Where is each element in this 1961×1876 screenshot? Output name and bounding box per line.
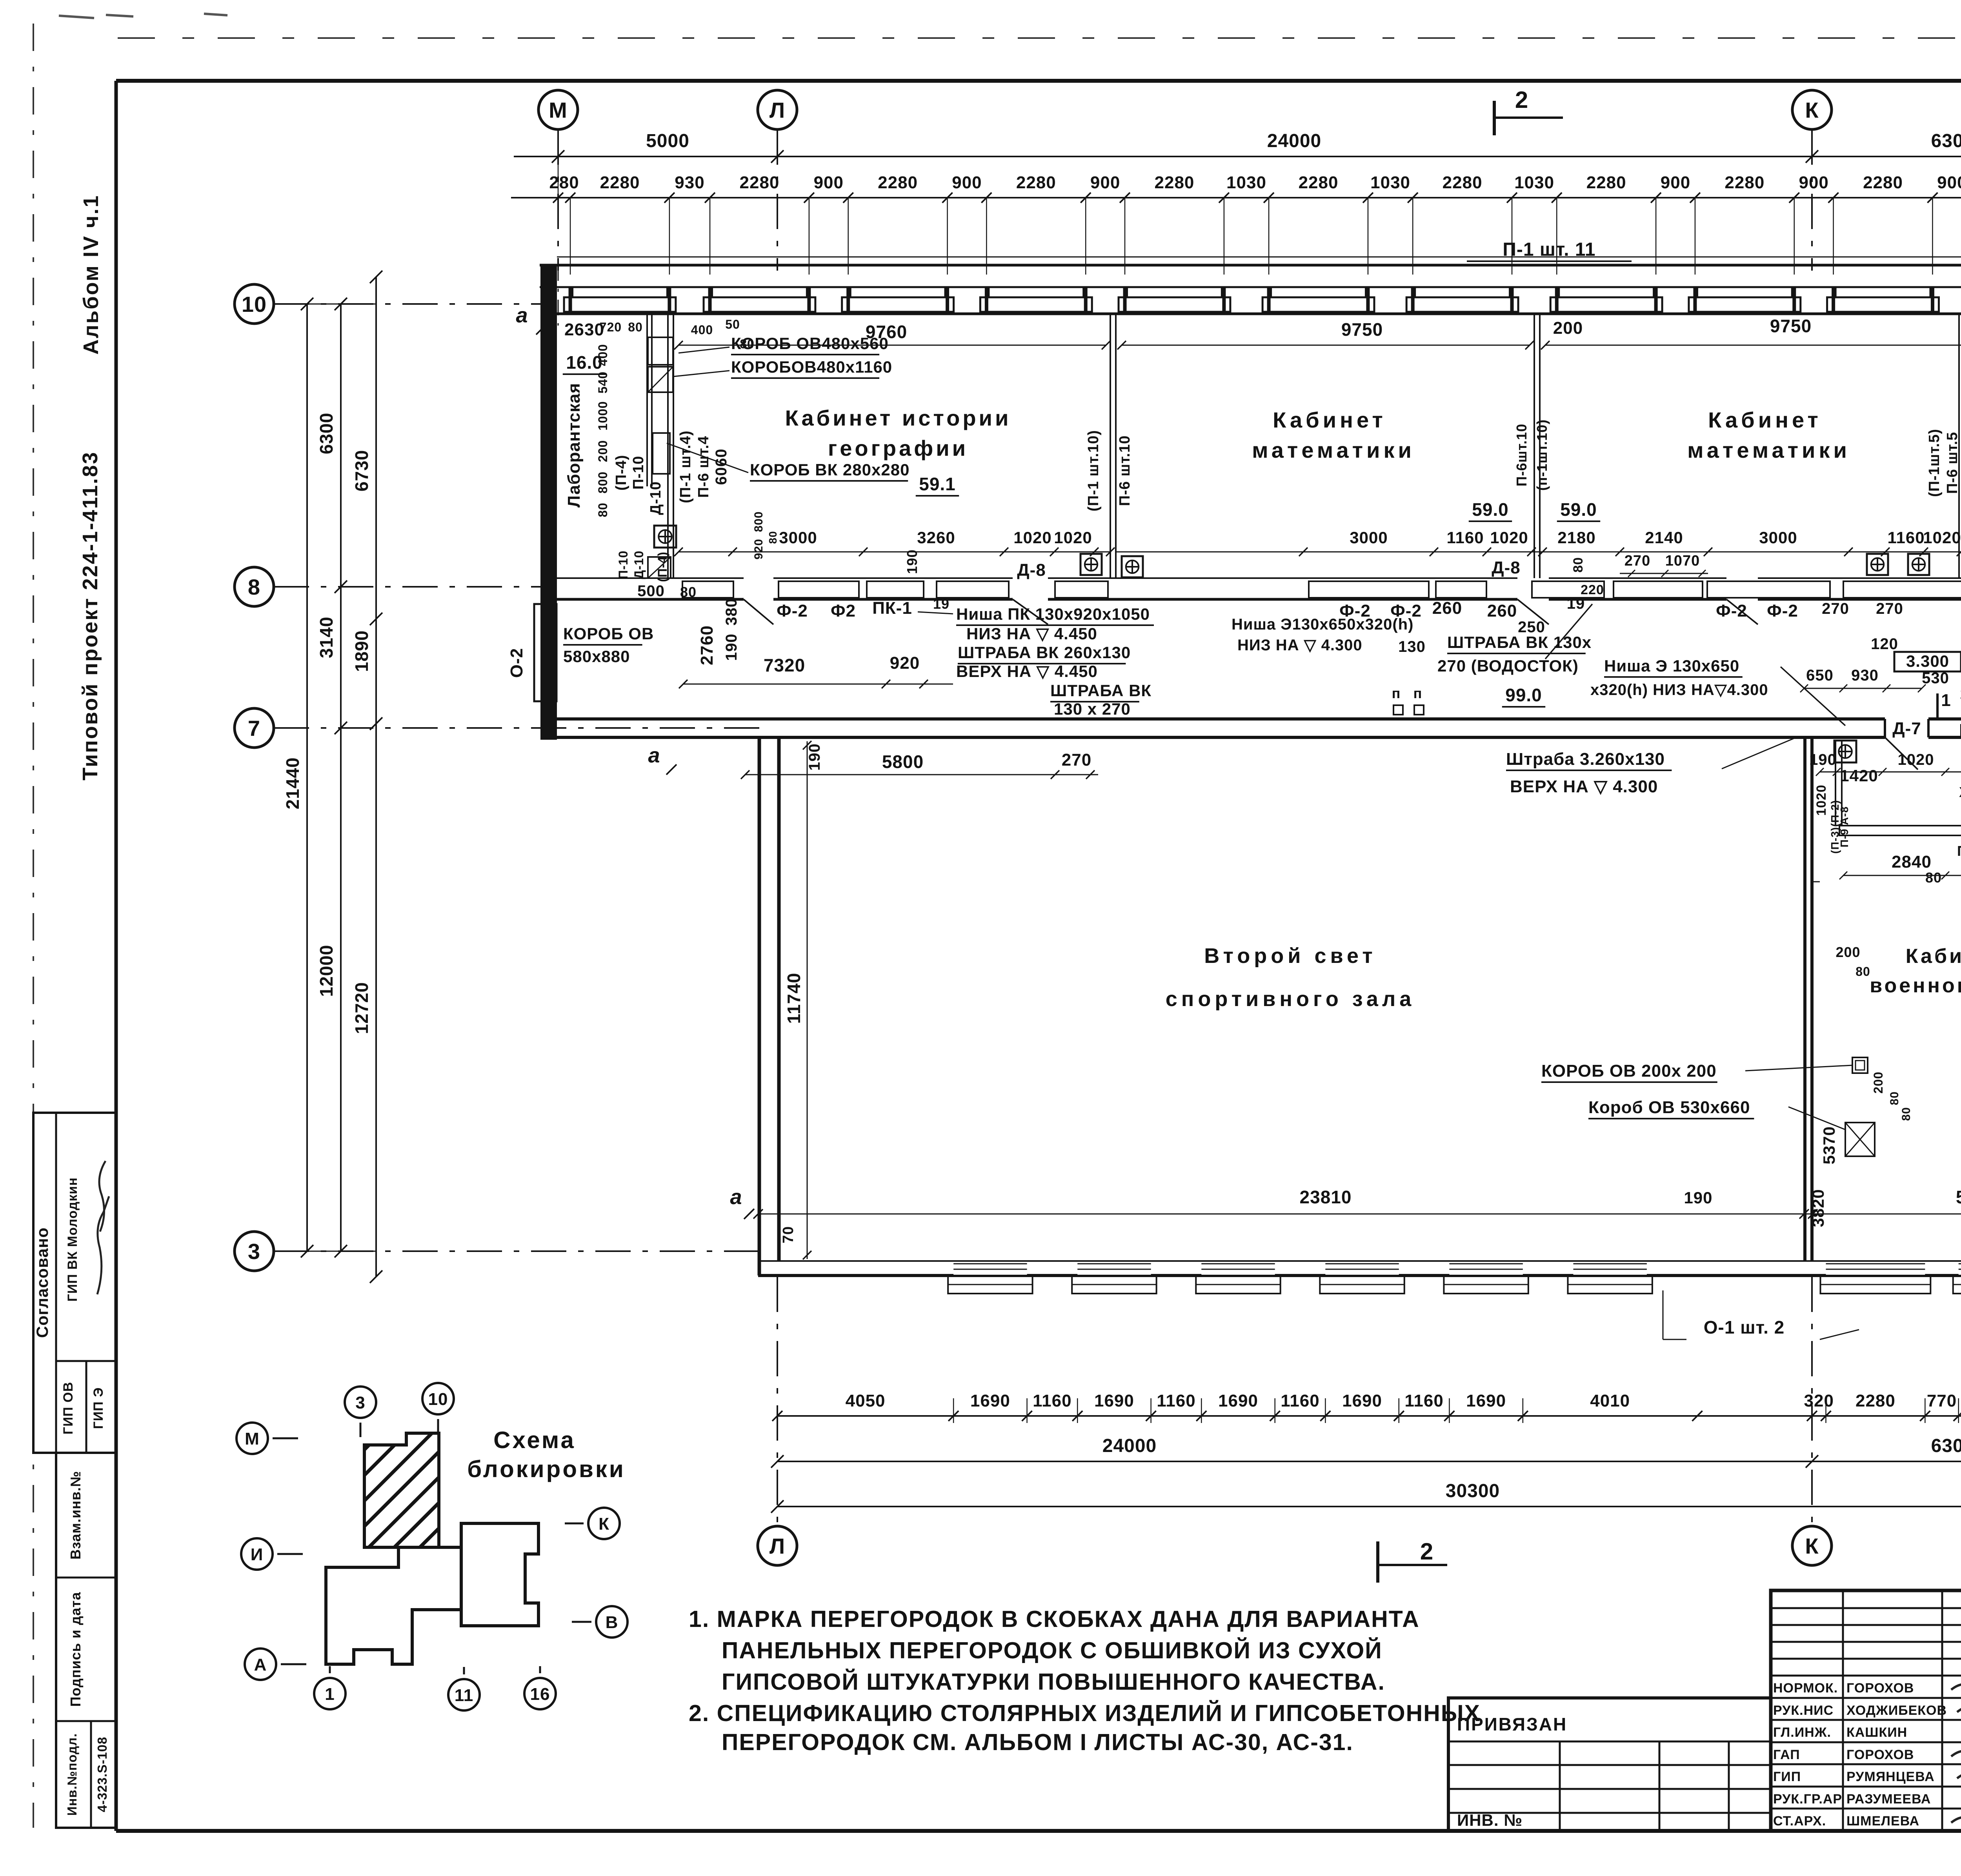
svg-text:7320: 7320 xyxy=(764,655,805,675)
svg-text:ХОДЖИБЕКОВ: ХОДЖИБЕКОВ xyxy=(1846,1703,1947,1718)
svg-text:3140: 3140 xyxy=(316,617,337,658)
svg-text:ГОРОХОВ: ГОРОХОВ xyxy=(1846,1681,1914,1696)
svg-text:50: 50 xyxy=(725,317,740,331)
svg-text:220: 220 xyxy=(1581,582,1604,597)
svg-text:30300: 30300 xyxy=(1446,1481,1500,1501)
svg-text:6060: 6060 xyxy=(713,449,730,485)
svg-text:80: 80 xyxy=(740,337,755,351)
svg-text:1420: 1420 xyxy=(1840,766,1878,785)
svg-text:О-2: О-2 xyxy=(507,648,526,678)
svg-text:1160: 1160 xyxy=(1404,1391,1443,1410)
svg-text:ГАП: ГАП xyxy=(1773,1747,1800,1762)
svg-text:1890: 1890 xyxy=(351,630,372,672)
svg-text:Кабинет: Кабинет xyxy=(1708,408,1822,432)
svg-text:(П-1шт.5): (П-1шт.5) xyxy=(1926,429,1943,497)
svg-text:16: 16 xyxy=(530,1685,550,1704)
svg-text:географии: географии xyxy=(828,436,968,460)
svg-text:П-10: П-10 xyxy=(616,550,630,579)
svg-text:9760: 9760 xyxy=(866,322,907,342)
svg-text:х320(h) НИЗ НА▽4.300: х320(h) НИЗ НА▽4.300 xyxy=(1590,681,1768,699)
svg-text:1160: 1160 xyxy=(1157,1391,1195,1410)
svg-text:2630: 2630 xyxy=(564,320,604,339)
svg-text:1020: 1020 xyxy=(1013,528,1051,547)
svg-text:270: 270 xyxy=(1624,553,1650,569)
svg-text:2. СПЕЦИФИКАЦИЮ СТОЛЯРНЫХ ИЗ: 2. СПЕЦИФИКАЦИЮ СТОЛЯРНЫХ ИЗДЕЛИЙ И ГИПС… xyxy=(689,1700,1481,1726)
svg-text:1020: 1020 xyxy=(1814,784,1829,816)
svg-text:12000: 12000 xyxy=(316,945,337,997)
svg-text:580х880: 580х880 xyxy=(563,647,630,666)
svg-text:200: 200 xyxy=(596,440,610,462)
svg-text:800: 800 xyxy=(596,471,610,493)
svg-text:1000: 1000 xyxy=(596,401,610,430)
svg-text:2280: 2280 xyxy=(1016,173,1056,192)
svg-text:59.0: 59.0 xyxy=(1472,499,1509,520)
svg-text:НИЗ НА ▽ 4.300: НИЗ НА ▽ 4.300 xyxy=(1237,637,1363,654)
svg-text:П-1 шт. 11: П-1 шт. 11 xyxy=(1503,239,1595,260)
svg-text:200: 200 xyxy=(1553,318,1583,338)
svg-text:900: 900 xyxy=(1937,173,1961,192)
svg-text:99.0: 99.0 xyxy=(1505,685,1542,705)
svg-text:Инв.№подл.: Инв.№подл. xyxy=(65,1733,79,1816)
svg-text:5920: 5920 xyxy=(1956,1187,1961,1207)
svg-text:1020: 1020 xyxy=(1898,751,1934,768)
svg-text:770: 770 xyxy=(1927,1391,1957,1410)
svg-text:3000: 3000 xyxy=(1759,528,1797,547)
svg-text:270: 270 xyxy=(1062,750,1091,770)
svg-text:П-6 шт.5: П-6 шт.5 xyxy=(1944,432,1961,494)
svg-text:КОРОБОВ480х1160: КОРОБОВ480х1160 xyxy=(731,358,892,376)
svg-text:930: 930 xyxy=(1851,667,1879,684)
svg-text:Взам.инв.№: Взам.инв.№ xyxy=(67,1471,84,1559)
svg-text:2: 2 xyxy=(1515,87,1528,113)
svg-text:2280: 2280 xyxy=(1586,173,1626,192)
svg-text:900: 900 xyxy=(1661,173,1690,192)
svg-text:А: А xyxy=(254,1655,267,1674)
svg-text:9750: 9750 xyxy=(1341,319,1383,340)
svg-text:ПАНЕЛЬНЫХ ПЕРЕГОРОДОК С ОБШИ: ПАНЕЛЬНЫХ ПЕРЕГОРОДОК С ОБШИВКОЙ ИЗ СУХО… xyxy=(722,1637,1383,1663)
svg-text:П-6 шт.4: П-6 шт.4 xyxy=(695,436,712,498)
svg-text:ИНВ. №: ИНВ. № xyxy=(1457,1811,1523,1829)
svg-text:80: 80 xyxy=(767,531,779,544)
svg-text:2140: 2140 xyxy=(1645,528,1683,547)
svg-text:280: 280 xyxy=(549,173,579,192)
svg-text:1690: 1690 xyxy=(970,1391,1010,1410)
svg-text:Ниша Э130х650х320(h): Ниша Э130х650х320(h) xyxy=(1232,616,1413,633)
svg-text:21440: 21440 xyxy=(282,757,303,810)
svg-text:5000: 5000 xyxy=(646,131,689,151)
svg-text:190: 190 xyxy=(904,549,920,574)
svg-text:650: 650 xyxy=(1806,667,1834,684)
svg-text:80: 80 xyxy=(680,584,697,600)
svg-text:ШТРАБА ВК: ШТРАБА ВК xyxy=(1050,681,1151,700)
svg-text:СТ.АРХ.: СТ.АРХ. xyxy=(1773,1814,1826,1829)
svg-text:Ф-2: Ф-2 xyxy=(1716,601,1747,620)
svg-text:270: 270 xyxy=(1822,600,1849,617)
svg-text:П-9 А-8: П-9 А-8 xyxy=(1838,806,1850,848)
svg-text:80: 80 xyxy=(596,502,610,517)
svg-text:7: 7 xyxy=(248,716,260,741)
svg-text:Подпись и дата: Подпись и дата xyxy=(67,1592,84,1707)
svg-text:В: В xyxy=(606,1613,618,1632)
svg-text:70: 70 xyxy=(780,1226,797,1243)
svg-text:900: 900 xyxy=(1090,173,1120,192)
svg-text:Д-8: Д-8 xyxy=(1492,558,1520,577)
svg-text:19: 19 xyxy=(1567,595,1585,612)
svg-text:2280: 2280 xyxy=(1725,173,1765,192)
svg-text:П-6 шт.10: П-6 шт.10 xyxy=(1117,435,1133,506)
svg-text:(п-1шт.10): (п-1шт.10) xyxy=(1534,419,1550,491)
svg-text:ШТРАБА ВК 260х130: ШТРАБА ВК 260х130 xyxy=(958,643,1131,662)
svg-text:130 х 270: 130 х 270 xyxy=(1054,700,1131,718)
svg-text:КОРОБ ОВ: КОРОБ ОВ xyxy=(563,624,654,643)
svg-text:2280: 2280 xyxy=(1155,173,1195,192)
svg-text:6300: 6300 xyxy=(316,413,337,454)
svg-text:а: а xyxy=(516,304,528,327)
svg-text:3.300: 3.300 xyxy=(1906,652,1949,670)
svg-text:М: М xyxy=(245,1429,260,1448)
svg-text:500: 500 xyxy=(637,582,665,600)
svg-text:270: 270 xyxy=(1876,600,1903,617)
svg-text:М: М xyxy=(549,98,568,122)
svg-text:3: 3 xyxy=(355,1393,365,1412)
svg-text:1160: 1160 xyxy=(1887,528,1925,547)
svg-text:Д-10: Д-10 xyxy=(632,550,646,579)
svg-text:ГОРОХОВ: ГОРОХОВ xyxy=(1846,1747,1914,1762)
svg-text:Кабинет: Кабинет xyxy=(1906,945,1961,968)
svg-text:8: 8 xyxy=(248,575,260,599)
svg-text:ГИПСОВОЙ ШТУКАТУРКИ ПОВЫШЕНН: ГИПСОВОЙ ШТУКАТУРКИ ПОВЫШЕННОГО КАЧЕСТВА… xyxy=(722,1669,1385,1695)
svg-text:НИЗ НА ▽ 4.450: НИЗ НА ▽ 4.450 xyxy=(966,624,1097,643)
svg-text:Короб ОВ 530х660: Короб ОВ 530х660 xyxy=(1588,1098,1750,1117)
svg-text:ШМЕЛЕВА: ШМЕЛЕВА xyxy=(1846,1814,1919,1829)
svg-text:Хранение: Хранение xyxy=(1959,784,1961,800)
svg-text:КАШКИН: КАШКИН xyxy=(1846,1725,1907,1740)
svg-text:260: 260 xyxy=(1487,601,1517,620)
svg-text:190: 190 xyxy=(1809,751,1837,768)
svg-text:1: 1 xyxy=(1941,691,1951,710)
svg-text:(П-1 шт.4): (П-1 шт.4) xyxy=(677,430,694,503)
svg-text:1160: 1160 xyxy=(1033,1391,1071,1410)
svg-text:п: п xyxy=(1413,685,1423,701)
svg-text:900: 900 xyxy=(1799,173,1828,192)
svg-text:математики: математики xyxy=(1252,438,1415,462)
svg-text:6300: 6300 xyxy=(1931,131,1961,151)
svg-text:80: 80 xyxy=(1925,870,1942,886)
svg-text:1: 1 xyxy=(325,1685,335,1704)
svg-text:а: а xyxy=(730,1185,742,1209)
svg-text:военного дела: военного дела xyxy=(1870,974,1961,997)
svg-text:блокировки: блокировки xyxy=(467,1456,626,1482)
svg-text:И: И xyxy=(251,1545,264,1564)
svg-text:О-1 шт. 2: О-1 шт. 2 xyxy=(1704,1317,1785,1337)
svg-text:2280: 2280 xyxy=(1855,1391,1896,1410)
svg-text:10: 10 xyxy=(428,1390,448,1409)
svg-text:ГИП Э: ГИП Э xyxy=(91,1387,106,1429)
svg-text:1020: 1020 xyxy=(1054,528,1092,547)
svg-text:3260: 3260 xyxy=(917,528,955,547)
svg-text:ВЕРХ НА ▽ 4.300: ВЕРХ НА ▽ 4.300 xyxy=(1510,777,1658,796)
svg-text:24000: 24000 xyxy=(1267,131,1321,151)
svg-text:2180: 2180 xyxy=(1557,528,1595,547)
svg-text:ПЕРЕГОРОДОК СМ. АЛЬБОМ I ЛИС: ПЕРЕГОРОДОК СМ. АЛЬБОМ I ЛИСТЫ АС-30, АС… xyxy=(722,1729,1353,1755)
svg-text:400: 400 xyxy=(691,323,713,337)
svg-text:Альбом IV ч.1: Альбом IV ч.1 xyxy=(79,195,103,355)
svg-text:19: 19 xyxy=(933,596,950,612)
svg-text:Согласовано: Согласовано xyxy=(33,1227,51,1338)
svg-text:9750: 9750 xyxy=(1770,316,1812,336)
svg-text:2280: 2280 xyxy=(878,173,918,192)
svg-text:190: 190 xyxy=(806,743,823,771)
svg-text:Д-7: Д-7 xyxy=(1892,719,1921,738)
svg-text:Ф-2: Ф-2 xyxy=(1767,601,1798,620)
svg-text:ВЕРХ НА ▽ 4.450: ВЕРХ НА ▽ 4.450 xyxy=(956,662,1098,681)
svg-text:(П-4): (П-4) xyxy=(655,551,669,582)
svg-text:920: 920 xyxy=(890,653,920,673)
svg-text:1. МАРКА ПЕРЕГОРОДОК В СКОБК: 1. МАРКА ПЕРЕГОРОДОК В СКОБКАХ ДАНА ДЛЯ … xyxy=(689,1606,1420,1632)
svg-text:Типовой проект 224-1-411.83: Типовой проект 224-1-411.83 xyxy=(78,451,102,781)
svg-text:200: 200 xyxy=(1835,944,1860,960)
svg-text:3000: 3000 xyxy=(1350,528,1388,547)
svg-text:1030: 1030 xyxy=(1226,173,1266,192)
svg-text:П-8 шт.3 (П-2: П-8 шт.3 (П-2 xyxy=(1957,843,1961,859)
svg-text:12720: 12720 xyxy=(351,982,372,1034)
svg-text:900: 900 xyxy=(814,173,844,192)
svg-text:Л: Л xyxy=(769,1534,785,1558)
svg-text:80: 80 xyxy=(1888,1091,1901,1105)
svg-text:Второй свет: Второй свет xyxy=(1204,944,1376,968)
svg-text:ГЛ.ИНЖ.: ГЛ.ИНЖ. xyxy=(1773,1725,1831,1740)
svg-text:59.1: 59.1 xyxy=(919,474,956,494)
svg-text:Штраба 3.260х130: Штраба 3.260х130 xyxy=(1506,750,1665,769)
svg-text:1070: 1070 xyxy=(1665,553,1700,569)
svg-text:5370: 5370 xyxy=(1820,1126,1838,1164)
svg-text:РУК.ГР.АР: РУК.ГР.АР xyxy=(1773,1792,1842,1807)
svg-text:800: 800 xyxy=(752,511,765,532)
svg-text:3820: 3820 xyxy=(1809,1189,1827,1227)
svg-text:П-10: П-10 xyxy=(630,456,647,489)
svg-text:ГИП ВК Молодкин: ГИП ВК Молодкин xyxy=(65,1177,80,1301)
svg-text:80: 80 xyxy=(1855,964,1870,979)
svg-text:1690: 1690 xyxy=(1218,1391,1258,1410)
svg-text:1030: 1030 xyxy=(1514,173,1554,192)
svg-text:120: 120 xyxy=(1871,635,1898,653)
svg-text:Ниша ПК 130х920х1050: Ниша ПК 130х920х1050 xyxy=(956,605,1150,623)
svg-text:ПК-1: ПК-1 xyxy=(872,599,912,618)
svg-text:ГИП ОВ: ГИП ОВ xyxy=(61,1382,76,1435)
svg-text:1020: 1020 xyxy=(1923,528,1961,547)
svg-text:РАЗУМЕЕВА: РАЗУМЕЕВА xyxy=(1846,1792,1931,1807)
svg-text:4-323.S-108: 4-323.S-108 xyxy=(95,1737,109,1812)
svg-text:КОРОБ ОВ 200х 200: КОРОБ ОВ 200х 200 xyxy=(1541,1061,1717,1081)
svg-text:1160: 1160 xyxy=(1281,1391,1319,1410)
svg-text:ШТРАБА ВК 130х: ШТРАБА ВК 130х xyxy=(1447,633,1592,651)
svg-text:Ф-2: Ф-2 xyxy=(777,601,808,620)
svg-text:1030: 1030 xyxy=(1370,173,1410,192)
svg-text:6300: 6300 xyxy=(1931,1436,1961,1456)
svg-text:спортивного зала: спортивного зала xyxy=(1166,987,1415,1011)
svg-text:Д-8: Д-8 xyxy=(1017,560,1046,580)
svg-text:1690: 1690 xyxy=(1094,1391,1134,1410)
svg-text:2760: 2760 xyxy=(697,625,717,665)
svg-text:130: 130 xyxy=(1398,638,1426,655)
svg-text:Кабинет: Кабинет xyxy=(1273,408,1386,432)
svg-text:23810: 23810 xyxy=(1300,1187,1352,1207)
svg-text:24000: 24000 xyxy=(1102,1436,1157,1456)
svg-text:п: п xyxy=(1392,685,1401,701)
svg-text:400: 400 xyxy=(596,344,610,366)
svg-text:2: 2 xyxy=(1420,1538,1433,1565)
svg-text:320: 320 xyxy=(1804,1391,1834,1410)
svg-text:математики: математики xyxy=(1687,438,1850,462)
svg-text:930: 930 xyxy=(675,173,704,192)
svg-text:190: 190 xyxy=(1684,1188,1712,1207)
svg-text:КОРОБ ОВ480х560: КОРОБ ОВ480х560 xyxy=(731,334,889,353)
svg-text:1160: 1160 xyxy=(1446,528,1484,547)
svg-text:НОРМОК.: НОРМОК. xyxy=(1773,1681,1838,1696)
svg-text:Лаборантская: Лаборантская xyxy=(564,383,584,508)
svg-text:РУМЯНЦЕВА: РУМЯНЦЕВА xyxy=(1846,1769,1935,1784)
svg-text:920: 920 xyxy=(752,539,765,559)
svg-text:1690: 1690 xyxy=(1466,1391,1506,1410)
svg-text:К: К xyxy=(1805,1534,1819,1558)
svg-text:2280: 2280 xyxy=(600,173,640,192)
svg-text:80: 80 xyxy=(1571,557,1586,573)
svg-text:Ниша Э 130х650: Ниша Э 130х650 xyxy=(1604,657,1739,675)
svg-text:540: 540 xyxy=(596,371,610,393)
svg-text:200: 200 xyxy=(1871,1072,1885,1094)
svg-text:270 (ВОДОСТОК): 270 (ВОДОСТОК) xyxy=(1437,657,1579,675)
svg-text:900: 900 xyxy=(952,173,982,192)
svg-text:6730: 6730 xyxy=(351,450,372,491)
svg-text:ГИП: ГИП xyxy=(1773,1769,1801,1784)
svg-text:ПРИВЯЗАН: ПРИВЯЗАН xyxy=(1457,1714,1567,1734)
svg-text:10: 10 xyxy=(242,292,267,317)
svg-text:11740: 11740 xyxy=(784,973,804,1024)
svg-text:3000: 3000 xyxy=(779,528,817,547)
svg-text:80: 80 xyxy=(628,320,643,334)
svg-text:П-6шт.10: П-6шт.10 xyxy=(1513,424,1530,486)
svg-text:80: 80 xyxy=(1900,1107,1913,1121)
svg-text:2280: 2280 xyxy=(1299,173,1339,192)
svg-text:190: 190 xyxy=(723,633,740,661)
svg-text:(П-1 шт.10): (П-1 шт.10) xyxy=(1085,430,1102,511)
svg-text:4010: 4010 xyxy=(1590,1391,1630,1410)
svg-text:К: К xyxy=(1805,98,1819,122)
svg-text:260: 260 xyxy=(1432,599,1462,618)
svg-text:Кабинет истории: Кабинет истории xyxy=(785,406,1011,430)
svg-text:Л: Л xyxy=(769,98,785,122)
svg-text:РУК.НИС: РУК.НИС xyxy=(1773,1703,1834,1718)
svg-text:380: 380 xyxy=(723,598,740,626)
svg-text:2280: 2280 xyxy=(1863,173,1903,192)
svg-text:5800: 5800 xyxy=(882,751,924,772)
svg-text:1020: 1020 xyxy=(1490,528,1528,547)
svg-text:2840: 2840 xyxy=(1892,852,1932,872)
svg-text:Д-10: Д-10 xyxy=(648,481,664,515)
svg-text:1690: 1690 xyxy=(1342,1391,1382,1410)
svg-text:2280: 2280 xyxy=(740,173,780,192)
svg-text:Схема: Схема xyxy=(493,1427,576,1453)
svg-text:59.0: 59.0 xyxy=(1560,499,1597,520)
svg-text:КОРОБ ВК 280х280: КОРОБ ВК 280х280 xyxy=(750,460,910,479)
svg-text:2280: 2280 xyxy=(1443,173,1483,192)
svg-text:Ф2: Ф2 xyxy=(831,601,856,620)
svg-text:(П-4): (П-4) xyxy=(613,455,629,490)
svg-text:3: 3 xyxy=(248,1239,260,1264)
svg-text:4050: 4050 xyxy=(846,1391,886,1410)
svg-text:а: а xyxy=(648,744,660,767)
svg-text:11: 11 xyxy=(455,1686,474,1705)
svg-text:К: К xyxy=(598,1514,609,1534)
